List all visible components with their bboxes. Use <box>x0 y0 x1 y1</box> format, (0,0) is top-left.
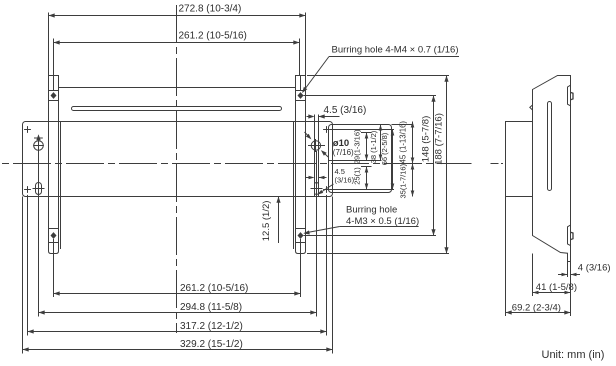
dimension 45 <box>399 121 415 164</box>
burring hole marker top-left <box>51 92 57 99</box>
svg-text:Burring hole: Burring hole <box>346 205 397 216</box>
left round hole with crosshair <box>33 139 44 152</box>
burring hole marker bottom-right <box>298 232 304 239</box>
svg-text:329.2 (15-1/2): 329.2 (15-1/2) <box>180 339 243 350</box>
dimension 148 <box>420 96 435 236</box>
dimension 4 side <box>558 262 611 278</box>
horizontal centerline <box>2 163 472 165</box>
svg-text:29(1-3/16): 29(1-3/16) <box>353 129 362 164</box>
svg-text:12.5 (1/2): 12.5 (1/2) <box>261 201 272 242</box>
burring hole 4-M4 label <box>302 45 459 94</box>
dimension 41 side <box>533 254 577 297</box>
vertical centerline <box>176 5 178 333</box>
corner hole cross top-right <box>323 126 330 133</box>
svg-text:Burring hole 4-M4 × 0.7 (1/16): Burring hole 4-M4 × 0.7 (1/16) <box>332 45 459 56</box>
right rail inner hem line <box>293 122 295 250</box>
burring hole 4-M3 label <box>303 205 419 235</box>
burring hole marker top-right <box>298 92 304 99</box>
dimension 272.8 extension lines <box>49 13 306 76</box>
corner hole cross bottom-right <box>323 186 330 193</box>
dimension 4.5 top <box>307 105 367 119</box>
svg-text:294.8 (11-5/8): 294.8 (11-5/8) <box>180 302 242 313</box>
dimension 329.2 <box>23 339 333 352</box>
svg-text:Unit: mm (in): Unit: mm (in) <box>542 349 605 361</box>
svg-text:261.2 (10-5/16): 261.2 (10-5/16) <box>180 283 248 294</box>
oblong width arrows <box>306 176 327 180</box>
left rail inner hem line <box>60 122 62 250</box>
reference line under circle label <box>329 160 382 162</box>
dimension 261.2 top <box>54 31 300 45</box>
corner hole cross bottom-left <box>24 186 31 193</box>
side view body <box>533 76 571 262</box>
dimension 38 <box>369 125 382 164</box>
top bar <box>59 88 296 122</box>
burring hole marker bottom-left <box>51 232 57 239</box>
plate outline <box>23 122 333 197</box>
svg-text:(3/16): (3/16) <box>335 175 355 184</box>
svg-text:66 (2-5/8): 66 (2-5/8) <box>380 132 389 165</box>
bottom extension lines <box>23 195 333 354</box>
left top tab hem lines <box>49 76 59 101</box>
svg-text:317.2 (12-1/2): 317.2 (12-1/2) <box>180 321 243 332</box>
right pipe rib lines <box>315 115 319 197</box>
dimension 35 <box>399 163 415 198</box>
svg-text:4 (3/16): 4 (3/16) <box>578 263 611 274</box>
dimension 317.2 <box>28 321 327 334</box>
right oblong hole <box>315 183 319 195</box>
left rail <box>49 76 59 254</box>
corner hole cross top-left <box>24 126 31 133</box>
dimension 66 <box>380 130 394 190</box>
side view centerline stub <box>491 163 504 165</box>
svg-text:272.8 (10-3/4): 272.8 (10-3/4) <box>179 4 242 15</box>
oblong width label 4.5 <box>317 167 354 195</box>
pipe opening detail box <box>329 125 414 193</box>
side view left edge notch <box>530 105 533 110</box>
right oblong crosshair <box>311 151 323 199</box>
dimension 294.8 <box>39 302 317 315</box>
bar slot <box>72 107 282 111</box>
svg-text:45 (1-13/16): 45 (1-13/16) <box>399 121 408 164</box>
right round hole with crosshair <box>308 139 325 152</box>
dimension 261.2 top extension lines <box>54 39 300 76</box>
left oblong crosshair <box>33 151 45 199</box>
svg-text:148 (5-7/8): 148 (5-7/8) <box>420 116 431 162</box>
dimension 69.2 side <box>506 197 571 317</box>
dimension 148 extension lines <box>304 96 437 236</box>
right top tab hem lines <box>296 76 306 101</box>
hole diameter label <box>333 138 354 157</box>
right rail <box>296 76 306 254</box>
dimension 29 <box>353 129 369 164</box>
svg-text:69.2 (2-3/4): 69.2 (2-3/4) <box>512 302 561 313</box>
side view top hook <box>568 85 574 106</box>
reference tick 25 top <box>361 166 372 168</box>
svg-text:(7/16): (7/16) <box>333 148 354 157</box>
right bottom tab hem lines <box>296 229 306 243</box>
svg-text:38 (1-1/2): 38 (1-1/2) <box>369 130 378 163</box>
reference line through bottom crosses <box>330 189 394 191</box>
right hole leader arrow <box>305 132 329 157</box>
dimension 25 <box>353 167 369 190</box>
side view wall flange <box>506 122 533 197</box>
side view bottom hook <box>568 225 574 246</box>
dimension 272.8 <box>49 4 306 18</box>
svg-text:188 (7-7/16): 188 (7-7/16) <box>434 113 445 165</box>
svg-text:4-M3 × 0.5 (1/16): 4-M3 × 0.5 (1/16) <box>346 216 419 227</box>
dimension 12.5 <box>261 197 281 244</box>
svg-text:35(1-7/16): 35(1-7/16) <box>399 163 408 198</box>
dimension 261.2 bottom <box>54 283 301 296</box>
side view slot <box>548 102 552 191</box>
dimension 188 <box>434 76 449 254</box>
svg-text:4.5 (3/16): 4.5 (3/16) <box>324 105 367 116</box>
left oblong hole <box>36 183 42 195</box>
dimension 188 extension lines <box>307 76 449 254</box>
reference tick 29 top <box>361 132 372 134</box>
reference line through top crosses <box>330 129 394 131</box>
left hole pointer arrow <box>34 134 43 150</box>
svg-text:261.2 (10-5/16): 261.2 (10-5/16) <box>179 31 247 42</box>
left bottom tab hem lines <box>49 229 59 243</box>
